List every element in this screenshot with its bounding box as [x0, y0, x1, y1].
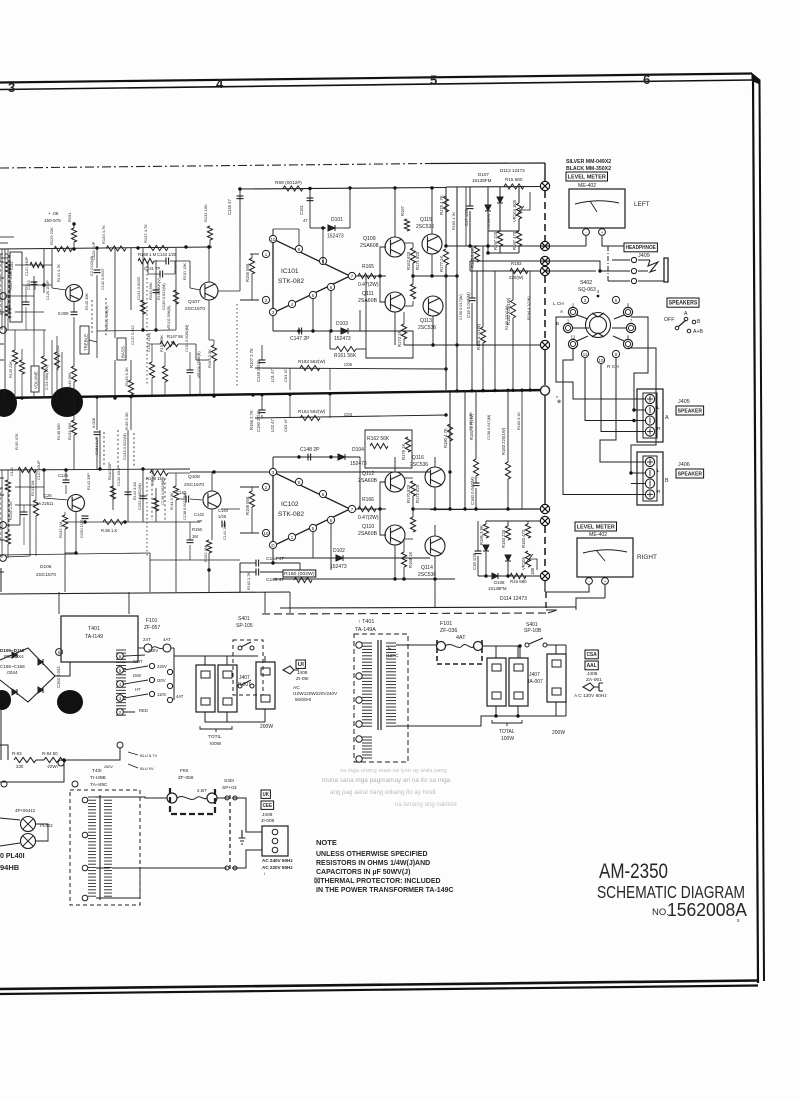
wire R163 vertical links — [290, 368, 330, 418]
transformer A sec tap top — [396, 644, 404, 646]
svg-text:R173 1K: R173 1K — [397, 330, 402, 347]
svg-text:ME-402: ME-402 — [578, 183, 596, 189]
svg-text:A: A — [560, 309, 564, 315]
svg-text:7: 7 — [630, 319, 633, 324]
wire top row y457 — [273, 456, 360, 458]
wire left col lower — [19, 470, 21, 525]
wire RED — [101, 711, 135, 713]
wire x115 lower — [114, 360, 116, 398]
svg-text:94HB: 94HB — [0, 863, 20, 872]
rotary switch rotor inner — [590, 317, 607, 334]
svg-text:R183 470: R183 470 — [521, 529, 526, 548]
svg-text:ZI-06I: ZI-06I — [296, 676, 309, 682]
speaker jack B term 3 — [645, 479, 654, 488]
svg-text:152473: 152473 — [327, 234, 344, 240]
svg-text:R:44 3.3K: R:44 3.3K — [169, 492, 174, 510]
wire R183 left leg — [469, 261, 471, 271]
rotary switch contact 8 — [623, 339, 632, 348]
resistor R131 10K — [209, 240, 211, 247]
svg-text:R: R — [657, 426, 661, 432]
svg-text:R155 56K: R155 56K — [245, 263, 250, 282]
svg-text:⊗: ⊗ — [557, 399, 561, 405]
svg-text:C126: C126 — [58, 473, 69, 478]
wire meter left down1 — [585, 236, 587, 246]
svg-text:R156 2.7K: R156 2.7K — [249, 410, 254, 430]
svg-text:C124: C124 — [10, 467, 14, 476]
svg-text:IC102: IC102 — [281, 501, 299, 508]
wire q106 link — [65, 552, 76, 554]
wire Q108 emitter — [211, 509, 213, 540]
svg-text:100W: 100W — [501, 736, 514, 742]
svg-text:R183 5.1K: R183 5.1K — [517, 412, 521, 430]
capacitor C140 body — [186, 496, 189, 503]
svg-text:.0044: .0044 — [6, 670, 18, 675]
svg-text:Q109: Q109 — [363, 236, 376, 242]
svg-text:Q108: Q108 — [188, 474, 200, 480]
ac plug right — [583, 683, 603, 691]
wire lower x508 — [507, 390, 509, 462]
svg-text:3: 3 — [8, 80, 15, 95]
wire busX3 line — [470, 260, 545, 262]
op-amp IC101 pin 10 — [269, 235, 276, 242]
wire power low rail — [0, 745, 120, 760]
transformer T401A bottom coil — [362, 736, 372, 738]
svg-text:R132 1M: R132 1M — [58, 522, 63, 538]
svg-text:R176 1K: R176 1K — [401, 443, 406, 460]
svg-text:R162 820: R162 820 — [406, 251, 411, 270]
svg-text:2SC536: 2SC536 — [418, 325, 436, 331]
svg-text:SCHEMATIC DIAGRAM: SCHEMATIC DIAGRAM — [597, 882, 745, 902]
rotary switch stub 2 — [577, 315, 588, 319]
bus junction X7 — [540, 516, 549, 525]
wire outlets bottom rail — [496, 702, 566, 716]
dashed rail above power — [262, 613, 548, 614]
left edge frag6 — [0, 477, 4, 479]
speaker mode circle ab — [687, 329, 691, 333]
svg-text:C150 1/25: C150 1/25 — [79, 519, 84, 538]
svg-text:JA-007: JA-007 — [527, 679, 543, 685]
svg-text:FI0I: FI0I — [180, 768, 188, 774]
capacitor C126 body — [63, 480, 70, 483]
wire L-drop to busX5 — [477, 271, 540, 345]
border frame bottom line inner — [0, 986, 758, 995]
svg-text:ZF-059: ZF-059 — [178, 775, 194, 781]
svg-text:R125 22K: R125 22K — [9, 361, 13, 378]
svg-text:4AT: 4AT — [176, 694, 184, 699]
wire R173 top — [403, 312, 405, 324]
svg-text:R162 56K: R162 56K — [367, 436, 390, 442]
svg-text:R131 1M: R131 1M — [31, 481, 35, 496]
svg-text:VOLUME: VOLUME — [34, 371, 39, 389]
wire sec to outlets — [403, 645, 405, 726]
wire outlets left bottom — [205, 709, 265, 722]
svg-text:C135 0.022(M): C135 0.022(M) — [161, 283, 166, 310]
svg-text:10: 10 — [599, 358, 604, 363]
wire input left column — [4, 249, 6, 398]
svg-text:260V: 260V — [104, 765, 113, 769]
left edge frag8 — [0, 539, 4, 541]
cap extra ll3 — [187, 540, 194, 543]
bus junction X2 — [540, 241, 549, 250]
resistor R152 body — [206, 540, 211, 553]
op-amp IC102 pin 7 — [348, 505, 355, 512]
svg-text:I10W120W220V240V: I10W120W220V240V — [293, 691, 338, 696]
op-amp IC102 triangle — [273, 472, 350, 546]
rotary switch contact 10 — [597, 356, 604, 363]
speaker B label box — [676, 469, 704, 478]
op-amp IC101 pin 9 — [295, 245, 302, 252]
wire inlet to switch — [232, 798, 262, 832]
svg-text:C129 1UP: C129 1UP — [91, 241, 96, 260]
resistor R184 220W upper — [510, 300, 515, 318]
wire outlets left top — [205, 656, 265, 665]
wire pin6b drop — [330, 524, 332, 570]
transformer TA-49 coil2 — [104, 796, 112, 798]
op-amp IC102 pin 5 — [309, 524, 316, 531]
wire scatter v2 — [529, 271, 531, 390]
wire fuse to switch — [482, 645, 520, 647]
resistor R182 47W — [473, 459, 478, 476]
svg-text:R148 15K: R148 15K — [146, 476, 165, 481]
svg-text:ZF-057: ZF-057 — [144, 625, 160, 631]
svg-text:R69 (0012#): R69 (0012#) — [275, 180, 302, 186]
wire outlet rail to plug — [565, 645, 567, 716]
capacitor C150 1-25 — [82, 516, 89, 519]
wire rail y188 left — [238, 188, 446, 190]
resistor R-93 — [14, 757, 36, 762]
transformer T401L box — [61, 616, 138, 662]
wire treble pot — [96, 338, 98, 358]
transformer TA-49 dashed box — [70, 790, 140, 905]
svg-text:152473: 152473 — [350, 461, 367, 467]
switch S401 SP-105 dashed box — [233, 640, 263, 695]
svg-text:2SC1570: 2SC1570 — [36, 572, 56, 578]
transformer T401A secondary coil — [386, 642, 396, 644]
treble label box — [80, 326, 89, 354]
svg-text:Q114: Q114 — [421, 565, 433, 571]
resistor R160 — [294, 577, 312, 582]
left edge frag5 — [0, 359, 4, 361]
wire box3 to plug — [276, 656, 283, 664]
svg-text:ZA-061: ZA-061 — [586, 677, 602, 683]
svg-text:T401: T401 — [88, 626, 100, 632]
svg-text:220(W): 220(W) — [509, 275, 524, 280]
capacitor C149 coupling — [259, 360, 266, 363]
svg-text:1562008A: 1562008A — [667, 900, 747, 920]
switch S401L contact top — [225, 796, 229, 800]
bus junction X8 — [540, 571, 549, 580]
svg-text:AAL: AAL — [587, 663, 598, 669]
resistor R132 1M — [64, 512, 66, 515]
wire x97 column upper — [96, 248, 98, 268]
transformer TA-49 core — [99, 795, 101, 900]
switch S401L dashes — [229, 795, 231, 870]
svg-text:R187 470: R187 470 — [512, 231, 517, 250]
transformer TA-49 coil1 — [88, 796, 96, 798]
transformer T401L tap2 — [117, 709, 124, 716]
svg-text:220V: 220V — [157, 664, 167, 669]
svg-text:0.47(2W): 0.47(2W) — [358, 282, 379, 288]
svg-text:ang pag aaral nang wikang ito: ang pag aaral nang wikang ito ay hindi — [330, 789, 436, 796]
resistor R163 33K — [211, 345, 216, 361]
svg-text:R183: R183 — [511, 261, 522, 266]
svg-text:R169 4.7K: R169 4.7K — [452, 212, 456, 230]
resistor R148 15K — [150, 470, 168, 475]
svg-text:5: 5 — [430, 73, 437, 88]
wire switch to speakerB 3 — [631, 483, 645, 485]
svg-text:BASS: BASS — [121, 346, 126, 358]
svg-text:0 PL40I: 0 PL40I — [0, 853, 25, 860]
svg-text:UNLESS OTHERWISE SPECIFIED: UNLESS OTHERWISE SPECIFIED — [316, 851, 428, 858]
left edge frag9 — [0, 571, 4, 573]
wire x128 column lower — [127, 430, 129, 522]
svg-text:v: v — [556, 394, 558, 399]
left mid stub row b — [22, 284, 52, 286]
rotary switch contact 6 — [623, 307, 632, 316]
svg-text:R166: R166 — [362, 497, 374, 503]
svg-text:R15 680: R15 680 — [505, 177, 523, 182]
svg-text:R139 56K: R139 56K — [148, 282, 153, 300]
svg-text:CEE: CEE — [263, 803, 273, 809]
transistor Q110 — [385, 525, 405, 545]
svg-text:R138 560: R138 560 — [57, 424, 61, 440]
resistor R171 820 — [404, 305, 413, 307]
wire lower rail y560 — [150, 559, 240, 561]
svg-text:R161 56K: R161 56K — [334, 353, 357, 359]
outlet J407L box3 slots — [261, 668, 270, 675]
svg-text:C153 1/(M): C153 1/(M) — [147, 332, 151, 352]
svg-text:Q107: Q107 — [188, 299, 200, 305]
top rail solid segment — [430, 162, 545, 165]
headphone jack spring — [648, 260, 658, 272]
svg-text:R163 3.3K: R163 3.3K — [207, 349, 212, 368]
wire switch to outlet rail — [547, 644, 566, 646]
wire Q115 bottom — [432, 316, 434, 345]
wire volume drop — [33, 330, 35, 366]
svg-text:R147 5K: R147 5K — [167, 334, 184, 339]
speaker jack B inner — [643, 456, 657, 501]
rotary switch contact 4 — [597, 295, 600, 298]
svg-text:R183 220(1W): R183 220(1W) — [506, 297, 511, 325]
svg-text:C137 0.022: C137 0.022 — [131, 325, 135, 345]
level meter left terminal minus — [583, 229, 590, 236]
wire hum pot — [0, 760, 64, 782]
svg-text:R107 2.7K: R107 2.7K — [249, 348, 254, 368]
svg-text:SP+03: SP+03 — [222, 785, 237, 791]
cap extra m1 — [187, 370, 194, 373]
wire pinD down — [272, 549, 274, 563]
tap wire 5 — [124, 666, 148, 670]
capacitor C157 1-25 — [467, 206, 474, 209]
op-amp IC102 pin 2 — [262, 483, 269, 490]
svg-text:SPEAKER: SPEAKER — [678, 408, 703, 414]
svg-text:R145 5.1K: R145 5.1K — [470, 248, 475, 268]
wire pin7 to bases — [356, 275, 386, 277]
resistor R149 560 — [71, 366, 76, 382]
svg-text:Q116: Q116 — [412, 455, 424, 461]
svg-text:2SC1570: 2SC1570 — [184, 482, 204, 488]
transformer TA-49 taps — [82, 797, 88, 803]
transformer tap 5 — [356, 736, 362, 742]
wire x97 below bus — [96, 398, 98, 430]
wire Q106b emitter — [75, 512, 77, 553]
left edge vert x2 — [1, 249, 3, 330]
wire transformer to fuse — [404, 644, 437, 646]
op-amp IC102 pin 10 — [262, 529, 269, 536]
wire fuse057 left — [138, 647, 144, 649]
capacitor C147 2P — [299, 328, 302, 335]
cee box — [261, 801, 274, 809]
transformer T401L coil — [116, 649, 126, 651]
ground mark inlet — [239, 830, 246, 844]
level meter left needle — [590, 201, 597, 212]
capacitor C148 2P — [308, 454, 311, 461]
wire outlets to transformer — [404, 716, 496, 726]
left edge frag3 — [0, 311, 4, 313]
svg-text:D102: D102 — [333, 548, 345, 554]
svg-text:110V: 110V — [157, 692, 167, 697]
level meter right body — [577, 538, 633, 577]
ac inlet box — [262, 826, 288, 856]
resistor R162 56K body — [370, 443, 388, 448]
op-amp IC101 pin 7 — [348, 272, 355, 279]
wire pin10b up — [272, 457, 274, 468]
label wire frag top2 — [0, 257, 8, 259]
diode D107 vertical — [487, 187, 489, 205]
headphone label box — [624, 243, 657, 252]
wire Q111 down — [394, 312, 396, 345]
svg-text:C141 7P: C141 7P — [144, 266, 161, 271]
svg-text:C125 10UP: C125 10UP — [46, 280, 50, 300]
left edge dashed box2 — [0, 488, 9, 540]
svg-text:C26: C26 — [44, 493, 52, 498]
resistor R167 — [404, 219, 409, 231]
resistor R176 1K — [405, 437, 410, 452]
switch S401L contact bot — [225, 866, 229, 870]
svg-text:L: L — [657, 405, 660, 411]
headphone jack body — [600, 260, 664, 281]
svg-text:R CH: R CH — [607, 364, 619, 370]
wire D104 right leg — [359, 457, 361, 509]
left edge frag1 — [0, 261, 4, 263]
resistor R187 470 — [516, 231, 521, 246]
svg-text:24T: 24T — [143, 637, 151, 642]
svg-text:R:36 5.3K: R:36 5.3K — [124, 412, 129, 430]
transformer tap 4 — [356, 721, 362, 727]
input jack 4 — [0, 555, 6, 562]
wire meter left down2 — [602, 236, 625, 246]
headphone dash-dot boundary — [607, 246, 609, 281]
feedback loop upper — [360, 331, 413, 358]
op-amp IC101 pin 4 — [288, 300, 295, 307]
power left rail — [174, 648, 258, 700]
transistor Q113 — [422, 234, 442, 254]
svg-text:L02 47: L02 47 — [270, 419, 275, 432]
svg-text:L: L — [657, 468, 660, 474]
svg-text:+: + — [604, 579, 607, 584]
svg-text:Q112: Q112 — [362, 471, 374, 477]
wire Q114 top — [434, 525, 436, 536]
svg-text:A C 120V 60Hz: A C 120V 60Hz — [574, 693, 607, 699]
wire x131 below bus — [130, 398, 132, 430]
wire pin10 up — [272, 229, 274, 235]
wire y522 rail — [65, 521, 200, 523]
svg-text:0.47(2W): 0.47(2W) — [358, 515, 379, 521]
resistor R134 560 body — [71, 420, 76, 435]
wire plug drop — [566, 645, 583, 683]
op-amp IC101 pin 8 — [319, 257, 326, 264]
svg-text:R145 30K: R145 30K — [85, 293, 89, 310]
speaker jack B term 4 — [645, 490, 654, 499]
wire busX7 branch — [486, 520, 540, 522]
fuse F101 ZF-057 body — [144, 644, 152, 652]
wire headphone feed — [546, 261, 600, 271]
wire pin3 down — [272, 316, 274, 331]
svg-text:C140: C140 — [176, 490, 187, 495]
svg-text:Q115: Q115 — [420, 217, 432, 223]
outlet J407L box2 — [218, 665, 237, 712]
bus junction X4 — [540, 266, 549, 275]
level meter right label box — [575, 522, 617, 531]
bass label box — [117, 338, 126, 360]
wire switch frame right — [631, 317, 648, 410]
left mid stub row a — [15, 264, 52, 266]
resistor R195 680 — [504, 184, 524, 189]
svg-text:↑ T401: ↑ T401 — [358, 619, 374, 625]
svg-text:WHT: WHT — [133, 659, 143, 664]
rotary switch stub 7 — [612, 327, 627, 329]
svg-text:C133 0.022(M): C133 0.022(M) — [122, 433, 127, 460]
wire vr103 stub — [519, 192, 530, 210]
svg-text:B: B — [665, 478, 669, 484]
bridge diode 1 — [12, 652, 17, 658]
transformer T401A core — [377, 640, 379, 730]
svg-text:R153 39K: R153 39K — [160, 335, 164, 352]
left edge vert frag — [0, 568, 2, 592]
capacitor C160 0047 — [473, 483, 480, 486]
left edge lower vert — [1, 470, 3, 558]
svg-text:sa mga unang araw na iyon ay w: sa mga unang araw na iyon ay wala pang — [340, 768, 447, 774]
sub x508 R188-220 — [507, 521, 509, 526]
wire headphone feed2 — [546, 270, 596, 272]
svg-text:J405: J405 — [678, 399, 690, 405]
svg-text:4: 4 — [597, 289, 600, 294]
transformer A sec tap bot — [396, 725, 404, 727]
svg-text:SQ-063: SQ-063 — [578, 287, 596, 293]
wire Q106b base — [43, 470, 45, 498]
left mid lower cap — [21, 512, 28, 515]
left edge resistor r2 — [5, 306, 10, 318]
wire Q105 emitter — [73, 302, 75, 312]
wire emitter join lower — [412, 496, 414, 517]
bus junction O1 — [540, 386, 549, 395]
fuse F101L dashed box — [170, 788, 215, 814]
svg-text:C164 0.044: C164 0.044 — [56, 666, 61, 688]
wire caps join — [240, 563, 300, 572]
wire Q113 emitter — [431, 254, 433, 276]
outlet J407L box3 — [256, 662, 275, 709]
wire y509 long — [221, 508, 430, 510]
svg-text:R159 56K: R159 56K — [245, 496, 250, 515]
resistor R173 1K — [401, 324, 406, 339]
resistor R165 047 — [358, 273, 376, 278]
wire x310 stub — [309, 189, 311, 229]
svg-text:VR103 1KB: VR103 1KB — [512, 200, 517, 222]
wire inlet to switch2 — [232, 850, 262, 868]
wire x150 drop — [149, 553, 151, 592]
svg-text:T40I: T40I — [92, 768, 102, 774]
resistor R147 5K body — [160, 341, 178, 346]
